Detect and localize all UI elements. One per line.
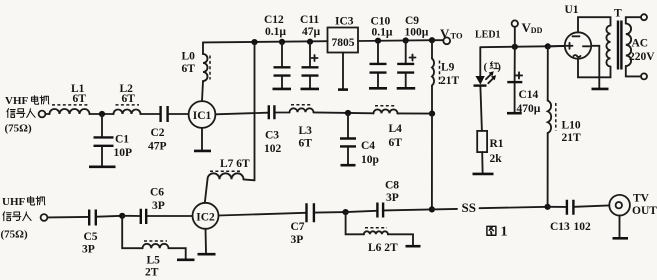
connector TV OUT: [609, 195, 630, 216]
svg-text:L6 2T: L6 2T: [368, 242, 398, 254]
svg-text:C8: C8: [385, 180, 399, 192]
wire 7805 ground pin: [342, 53, 344, 89]
ground L6: [406, 245, 421, 248]
ground C4: [341, 164, 356, 167]
wire R1 to ground: [481, 152, 483, 172]
svg-text:C2: C2: [151, 127, 165, 139]
svg-text:0.1µ: 0.1µ: [265, 26, 286, 38]
svg-text:220V: 220V: [629, 51, 655, 63]
node junction L1/L2/C1: [99, 111, 105, 117]
svg-text:C3: C3: [265, 130, 279, 142]
wire input to L1: [45, 113, 49, 115]
svg-text:L10: L10: [562, 120, 581, 132]
node C9 tap: [403, 37, 409, 43]
svg-text:U1: U1: [565, 4, 579, 16]
svg-text:L0: L0: [182, 51, 196, 63]
wire C5 to node: [97, 215, 122, 218]
wire bridge top to transformer: [578, 17, 611, 32]
inductor L6 branch: [346, 212, 364, 234]
svg-text:C10: C10: [371, 15, 391, 27]
svg-text:L4: L4: [389, 123, 403, 135]
svg-text:): ): [497, 61, 501, 73]
node C11 tap: [307, 39, 313, 45]
wire input to C5: [47, 216, 87, 219]
svg-text:VHF: VHF: [5, 95, 29, 107]
wire IC1 out to C3: [215, 113, 267, 115]
node rail/bias branch: [251, 39, 257, 45]
capacitor C5: [89, 210, 96, 226]
wire SS to L10 node: [480, 207, 548, 208]
wire C7 to node: [315, 211, 345, 214]
inductor L10: [547, 46, 549, 100]
svg-text:C14: C14: [519, 89, 539, 101]
node C10 tap: [375, 38, 381, 44]
svg-text:AC: AC: [632, 38, 649, 50]
capacitor C6: [141, 209, 146, 224]
wire LED to R1: [480, 87, 482, 131]
wire right rail down to output line: [431, 114, 433, 210]
wire IC1 to ground: [201, 128, 203, 150]
wire node to C8: [346, 211, 376, 212]
wire L9 to L4 node: [431, 86, 433, 114]
svg-text:C1: C1: [115, 134, 129, 146]
capacitor C8: [377, 203, 383, 218]
svg-text:7805: 7805: [332, 37, 355, 49]
svg-text:OUT: OUT: [632, 205, 657, 217]
ground IC3: [338, 88, 348, 91]
wire secondary bottom to AC terminal: [626, 66, 641, 76]
svg-text:L3: L3: [299, 125, 313, 137]
capacitor C11: [309, 42, 311, 66]
capacitor C2: [161, 106, 168, 122]
svg-text:1: 1: [501, 225, 508, 240]
ground TV OUT: [613, 237, 629, 240]
wire bias branch from rail: [254, 42, 256, 180]
node L4/right rail: [429, 111, 435, 117]
wire L2 to C2: [141, 113, 160, 115]
svg-text:L7 6T: L7 6T: [220, 158, 250, 170]
inductor L2: [114, 110, 141, 115]
svg-text:IC3: IC3: [335, 15, 354, 27]
node C7/C8/L6: [343, 209, 349, 215]
ground L5: [177, 258, 195, 261]
svg-text:3P: 3P: [152, 200, 165, 212]
svg-text:C9: C9: [405, 15, 419, 27]
svg-text:6T: 6T: [182, 63, 196, 75]
wire L10 to output node: [547, 133, 549, 207]
svg-text:6T: 6T: [73, 93, 87, 105]
op-amp IC2: [193, 203, 219, 229]
capacitor C7: [307, 203, 314, 222]
capacitor C9: [405, 41, 407, 63]
svg-text:100µ: 100µ: [405, 27, 429, 39]
ground bridge: [592, 88, 609, 91]
svg-text:L9: L9: [441, 62, 455, 74]
svg-text:2k: 2k: [490, 153, 503, 165]
capacitor C12: [281, 42, 283, 66]
regulator IC3 7805: [328, 28, 359, 53]
svg-text:10P: 10P: [114, 147, 133, 159]
svg-text:3P: 3P: [82, 244, 95, 256]
svg-text:C5: C5: [84, 231, 98, 243]
svg-text:IC1: IC1: [193, 110, 212, 122]
inductor L6: [364, 231, 388, 234]
wire C3 to L3: [276, 112, 290, 114]
node output/right rail: [429, 206, 435, 212]
wire bridge bottom to transformer: [578, 59, 611, 78]
node L3/L4/C4: [345, 110, 351, 116]
ground C10: [369, 87, 387, 90]
terminal VHF input: [39, 111, 46, 118]
wire L6 to ground: [388, 234, 413, 245]
svg-text:0.1µ: 0.1µ: [372, 27, 393, 39]
svg-text:IC2: IC2: [196, 211, 215, 223]
svg-text:6T: 6T: [122, 93, 136, 105]
svg-text:UHF: UHF: [2, 196, 26, 208]
svg-text:47P: 47P: [148, 141, 167, 153]
wire C13 to TV OUT: [575, 205, 610, 206]
wire IC2 to ground: [205, 229, 208, 253]
svg-text:V: V: [440, 26, 450, 41]
inductor L0: [203, 54, 208, 81]
svg-text:LED1: LED1: [475, 30, 501, 41]
wire IC1 top to L0: [202, 81, 203, 101]
svg-text:102: 102: [574, 221, 592, 233]
node bridge+/L10 tap: [545, 43, 551, 49]
node C5/C6/L5: [119, 213, 125, 219]
svg-text:102: 102: [264, 143, 282, 155]
ground C9: [397, 87, 416, 90]
svg-text:C4: C4: [361, 140, 375, 152]
svg-text:47µ: 47µ: [302, 26, 321, 38]
svg-text:R1: R1: [490, 138, 504, 150]
svg-text:C13: C13: [550, 221, 570, 233]
svg-text:10p: 10p: [361, 154, 379, 166]
node VTO / L9 tap: [429, 37, 435, 43]
ground IC2: [198, 253, 216, 256]
svg-text:DD: DD: [531, 26, 543, 35]
inductor L5: [143, 244, 169, 248]
inductor L3: [290, 108, 314, 112]
capacitor C3: [269, 105, 275, 119]
node L10/output/C13: [545, 204, 551, 210]
svg-text:(75Ω): (75Ω): [5, 123, 32, 135]
svg-text:C12: C12: [264, 14, 284, 26]
inductor L9: [431, 40, 433, 58]
wire bridge + to VDD rail: [548, 45, 565, 48]
wire top power rail: [203, 41, 328, 42]
svg-text:6T: 6T: [299, 138, 313, 150]
svg-text:3P: 3P: [386, 192, 399, 204]
op-amp IC1: [189, 101, 216, 128]
wire L0 to top rail: [202, 42, 204, 54]
wire L1 to L2: [90, 113, 114, 115]
svg-text:C6: C6: [150, 187, 164, 199]
wire TV OUT to ground: [619, 216, 621, 237]
ground C11: [301, 88, 320, 91]
capacitor C1: [101, 114, 103, 136]
capacitor C13: [567, 200, 574, 215]
wire secondary top to AC terminal: [626, 17, 641, 23]
wire VDD rail: [481, 46, 565, 47]
wire L7 to IC2: [205, 179, 208, 203]
wire corner to L7: [244, 178, 255, 181]
svg-text:3P: 3P: [291, 234, 304, 246]
inductor L1: [50, 109, 90, 114]
wire rail node to SS: [432, 208, 457, 211]
svg-text:SS: SS: [462, 200, 476, 215]
resistor R1: [477, 131, 487, 152]
svg-text:TO: TO: [451, 31, 464, 41]
wire C8 to rail node: [384, 209, 432, 210]
ground R1: [473, 173, 494, 176]
capacitor C14: [514, 47, 516, 81]
wire node to C13: [548, 206, 566, 208]
node C12 tap: [279, 39, 285, 45]
svg-text:(75Ω): (75Ω): [1, 229, 28, 241]
wire C6 to IC2: [148, 215, 193, 217]
capacitor C10: [377, 41, 379, 63]
inductor L5 branch wire: [122, 216, 142, 248]
inductor L7: [208, 173, 244, 179]
wire C2 to IC1: [169, 113, 189, 115]
inductor L4: [374, 109, 398, 113]
wire L4 to right rail: [398, 112, 433, 114]
svg-text:T: T: [614, 8, 622, 20]
terminal VTO: [432, 39, 443, 41]
svg-text:L5: L5: [147, 255, 161, 267]
svg-text:C11: C11: [300, 14, 319, 26]
label figure 1: [487, 226, 496, 235]
svg-text:21T: 21T: [562, 132, 582, 144]
wire L5 to ground: [169, 248, 186, 258]
svg-text:(: (: [484, 61, 488, 73]
terminal VDD: [514, 27, 516, 47]
node VDD terminal tap: [512, 44, 518, 50]
svg-text:21T: 21T: [440, 75, 460, 87]
ground C12: [273, 88, 292, 91]
wire bridge minus to ground: [591, 46, 599, 88]
ground C1: [89, 166, 116, 169]
svg-text:2T: 2T: [145, 267, 159, 279]
svg-text:TV: TV: [633, 193, 650, 205]
terminal UHF input: [41, 214, 48, 221]
svg-text:470µ: 470µ: [517, 103, 541, 115]
svg-text:6T: 6T: [389, 137, 403, 149]
wire L3 to C4 node: [314, 111, 374, 114]
svg-text:C7: C7: [291, 221, 305, 233]
ground IC1: [194, 150, 211, 153]
wire node to C6: [122, 215, 139, 217]
wire IC2 out to C7: [219, 213, 306, 216]
capacitor C4: [347, 113, 349, 137]
